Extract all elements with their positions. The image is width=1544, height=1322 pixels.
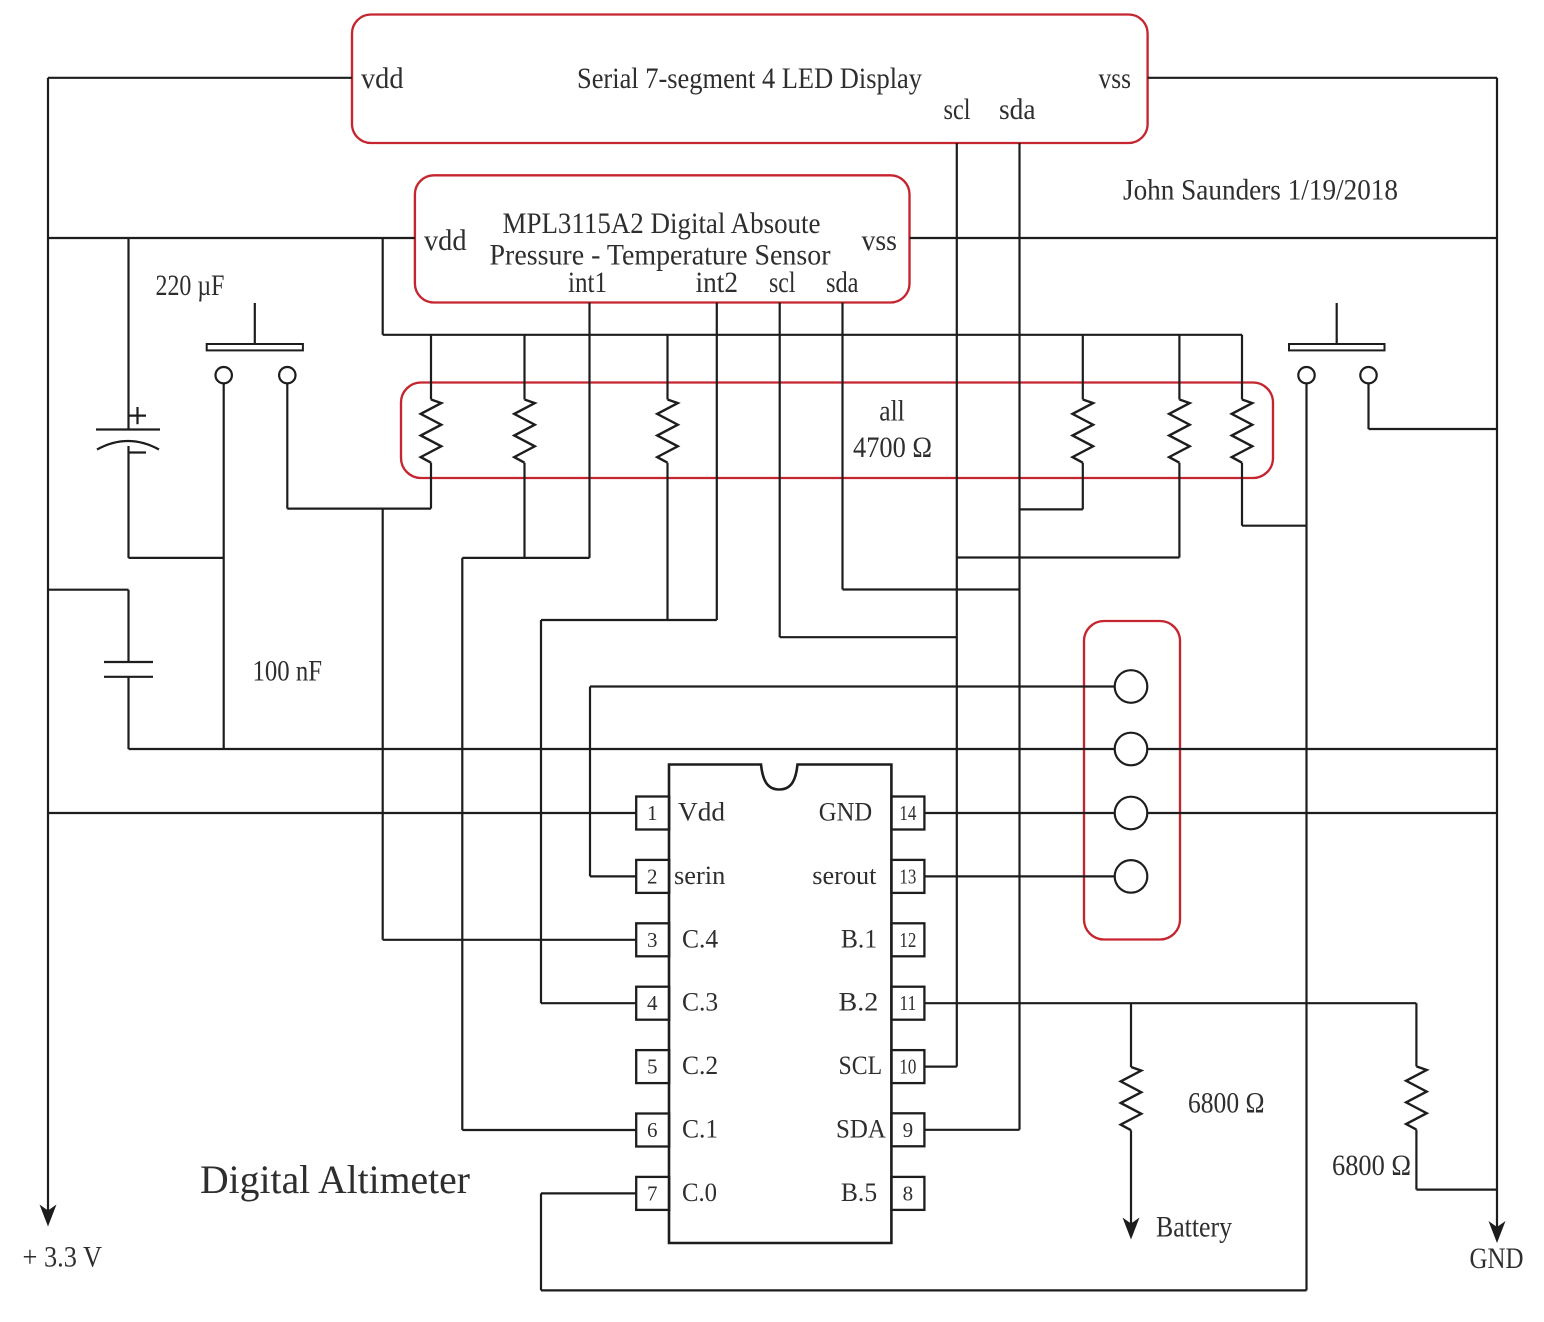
svg-text:vss: vss [862,224,898,257]
capacitor 220 uF curved bottom plate [97,441,159,450]
svg-text:sda: sda [826,266,859,299]
svg-text:scl: scl [944,93,971,126]
wire node R6 bottom to S2 left leg [1242,525,1307,527]
svg-text:SDA: SDA [836,1114,886,1143]
pin 8 box [891,1177,924,1210]
svg-text:MPL3115A2 Digital Absoute: MPL3115A2 Digital Absoute [503,207,821,240]
pin 3 box [636,923,669,956]
svg-text:2: 2 [647,864,658,888]
resistor R1 4700 ohm bottom lead [430,463,432,509]
capacitor 220 uF minus mark [129,451,147,453]
capacitor 100 nF top lead [127,590,129,662]
svg-text:11: 11 [899,991,916,1015]
svg-text:C.0: C.0 [682,1178,717,1207]
pin 6 box [636,1114,669,1147]
pushbutton S1 left contact [216,367,232,383]
svg-text:6800 Ω: 6800 Ω [1332,1149,1411,1182]
wire C.0 net bottom horizontal to S2 left leg [541,1289,1307,1291]
wire pull-up rail horizontal [383,334,1242,336]
resistor R6 4700 ohm top lead [1241,335,1243,400]
wire serin to connector pad 1 [590,685,1131,687]
wire display vss to right rail [1148,77,1497,79]
svg-text:SCL: SCL [839,1051,883,1080]
pushbutton S1 plunger bar [207,344,303,350]
GND arrowhead [1489,1221,1506,1243]
svg-text:vdd: vdd [361,62,404,95]
wire GND right rail vertical [1496,78,1498,1228]
wire +3.3V rail to pin 1 Vdd [48,812,636,814]
wire node C.4 vertical drop [382,509,384,940]
resistor R6 4700 ohm bottom lead [1241,463,1243,526]
wire serin vertical [589,687,591,877]
resistor R7 bottom lead to battery arrow [1130,1130,1132,1224]
wire 220uF bottom to pushbutton S1 left leg [129,557,224,559]
resistor R4 4700 ohm top lead [1082,335,1084,400]
svg-text:14: 14 [899,801,916,825]
wire MPL vss to right rail [910,237,1498,239]
resistor R8 6800 ohm top lead [1415,1003,1417,1066]
wire S1 left leg to ground net [223,383,225,749]
svg-text:7: 7 [647,1181,658,1205]
connector pad 3 GND/serout ref [1115,797,1148,830]
capacitor 220 uF electrolytic - top lead [127,238,129,430]
resistor R8 bottom lead [1415,1130,1417,1190]
resistor R3 4700 ohm [657,400,678,463]
wire S2 right leg down [1367,383,1369,429]
wire +3.3V left rail vertical [47,78,49,1212]
svg-text:+ 3.3 V: + 3.3 V [23,1241,103,1274]
wire node R4 bottom to sda bus [1020,508,1083,510]
resistor R1 4700 ohm [421,400,442,463]
svg-text:C.1: C.1 [682,1115,718,1144]
svg-text:C.4: C.4 [682,924,718,953]
wire scl bus vertical from display box [956,143,958,1067]
wire MPL sda to sda bus [843,588,1020,590]
resistor R4 4700 ohm [1073,400,1094,463]
wire node R2/int1 horizontal [462,557,589,559]
pushbutton S2 left contact [1298,367,1314,383]
resistor R2 4700 ohm [514,400,535,463]
pin 13 box [891,860,924,893]
connector pad 1 serin [1115,670,1148,703]
svg-text:vdd: vdd [424,224,467,257]
wire C.0 net vertical [540,1193,542,1290]
wire vdd feed to display box [48,77,352,79]
pushbutton S2 plunger bar [1289,344,1385,350]
svg-text:int1: int1 [568,266,607,299]
capacitor 100 nF top plate [104,661,153,663]
svg-text:scl: scl [769,266,796,299]
pin 1 box [636,797,669,830]
wire MPL sda drop [841,303,843,590]
svg-text:GND: GND [819,798,872,827]
svg-text:100 nF: 100 nF [253,655,323,688]
svg-text:Battery: Battery [1156,1211,1232,1244]
capacitor 220 uF bottom lead [127,446,129,558]
wire to pin 4 C.3 [541,1002,636,1004]
connector pad 4 serout [1115,860,1148,893]
capacitor 220 uF top plate [96,428,160,430]
wire +3.3V rail to 100nF [48,589,129,591]
resistor R5 4700 ohm bottom lead [1178,463,1180,558]
pull-up resistor group box (all 4700 ohm) [401,383,1273,479]
svg-text:Digital Altimeter: Digital Altimeter [200,1157,470,1202]
svg-text:vss: vss [1099,62,1132,95]
pushbutton S1 right contact [279,367,295,383]
wire pin 9 SDA to sda bus [924,1129,1019,1131]
wire pin 10 SCL to scl bus [924,1065,956,1067]
wire sda bus vertical from display box [1018,143,1020,1130]
svg-text:220 µF: 220 µF [156,269,225,302]
svg-text:9: 9 [903,1118,914,1142]
svg-text:1: 1 [647,801,658,825]
IC PICAXE 14-pin body [669,765,891,1244]
svg-text:6800 Ω: 6800 Ω [1188,1087,1265,1120]
svg-text:5: 5 [647,1055,658,1079]
svg-text:B.1: B.1 [841,924,877,953]
svg-text:13: 13 [899,864,916,888]
wire pin 7 C.0 out [541,1192,636,1194]
svg-text:C.3: C.3 [682,988,718,1017]
wire int1 drop from MPL [588,303,590,558]
pin 10 box [891,1050,924,1083]
svg-text:John Saunders 1/19/2018: John Saunders 1/19/2018 [1123,174,1398,207]
svg-text:Serial 7-segment 4 LED Display: Serial 7-segment 4 LED Display [577,62,922,95]
wire node R3/int2 horizontal [541,619,717,621]
pin 7 box [636,1177,669,1210]
resistor R3 4700 ohm top lead [666,335,668,400]
pushbutton S2 right contact [1360,367,1376,383]
svg-text:GND: GND [1470,1242,1524,1275]
resistor R2 4700 ohm top lead [523,335,525,400]
wire vdd drop from MPL vdd wire to pull-up rail [382,238,384,335]
wire node C.1 vertical drop [461,558,463,1130]
svg-text:int2: int2 [696,266,739,299]
svg-text:10: 10 [899,1055,916,1079]
wire node C.3 vertical drop [540,620,542,1003]
svg-text:all: all [879,395,905,428]
wire S1 right leg down [286,383,288,508]
capacitor 100 nF bottom lead [127,677,129,749]
wire serin to pin 2 [590,875,636,877]
pin 2 box [636,860,669,893]
svg-text:4: 4 [647,991,658,1015]
svg-text:Vdd: Vdd [678,798,725,827]
resistor R5 4700 ohm top lead [1178,335,1180,400]
battery sense arrowhead [1123,1218,1140,1240]
svg-text:serin: serin [674,861,725,890]
wire +3.3V to MPL vdd [48,237,415,239]
resistor R7 6800 ohm [1121,1067,1142,1130]
svg-text:sda: sda [999,93,1036,126]
wire S2 left leg down to C.0 net [1305,383,1307,1290]
resistor R2 4700 ohm bottom lead [523,463,525,558]
pushbutton S2 plunger stem [1336,303,1338,344]
svg-text:8: 8 [903,1181,914,1205]
capacitor 100 nF bottom plate [104,676,153,678]
MPL3115A2 sensor module box [415,175,910,302]
pin 11 box [891,987,924,1020]
svg-text:4700 Ω: 4700 Ω [853,431,932,464]
connector pad 2 ground [1115,733,1148,766]
wire S2 right leg to right rail [1369,428,1498,430]
wire int2 drop from MPL [716,303,718,621]
svg-text:3: 3 [647,928,658,952]
+3.3V arrowhead [40,1205,57,1227]
wire ground net horizontal to right rail [129,748,1498,750]
wire pin 14 GND to right rail through pad 3 [924,812,1497,814]
wire to pin 3 C.4 [383,939,637,941]
svg-text:B.5: B.5 [841,1178,877,1207]
resistor R5 4700 ohm [1169,400,1190,463]
resistor R1 4700 ohm top lead [430,335,432,400]
pin 4 box [636,987,669,1020]
svg-text:serout: serout [812,861,877,890]
programming connector box [1084,621,1180,940]
wire node R1 bottom to S1 right leg [287,508,431,510]
wire MPL scl to scl bus [780,636,957,638]
capacitor 220 uF plus sign [129,415,146,417]
wire pin 11 B.2 horizontal [924,1002,1416,1004]
resistor R3 4700 ohm bottom lead [666,463,668,620]
7-segment display module box [352,15,1148,144]
svg-text:C.2: C.2 [682,1051,718,1080]
svg-text:12: 12 [899,928,916,952]
pin 14 box [891,797,924,830]
pin 12 box [891,923,924,956]
svg-text:6: 6 [647,1118,658,1142]
resistor R4 4700 ohm bottom lead [1082,463,1084,510]
resistor R8 6800 ohm [1406,1066,1427,1129]
resistor R6 4700 ohm [1232,400,1253,463]
pin 9 box [891,1113,924,1146]
wire R8 to right rail [1416,1188,1497,1190]
pin 5 box [636,1050,669,1083]
pushbutton S1 plunger stem [254,303,256,344]
wire to pin 6 C.1 [462,1129,636,1131]
svg-text:B.2: B.2 [839,988,879,1017]
resistor R7 6800 ohm top lead [1130,1003,1132,1067]
wire pin 13 serout to connector pad 4 [924,875,1131,877]
wire node R5 bottom to scl bus [957,556,1180,558]
wire MPL scl drop [779,303,781,638]
